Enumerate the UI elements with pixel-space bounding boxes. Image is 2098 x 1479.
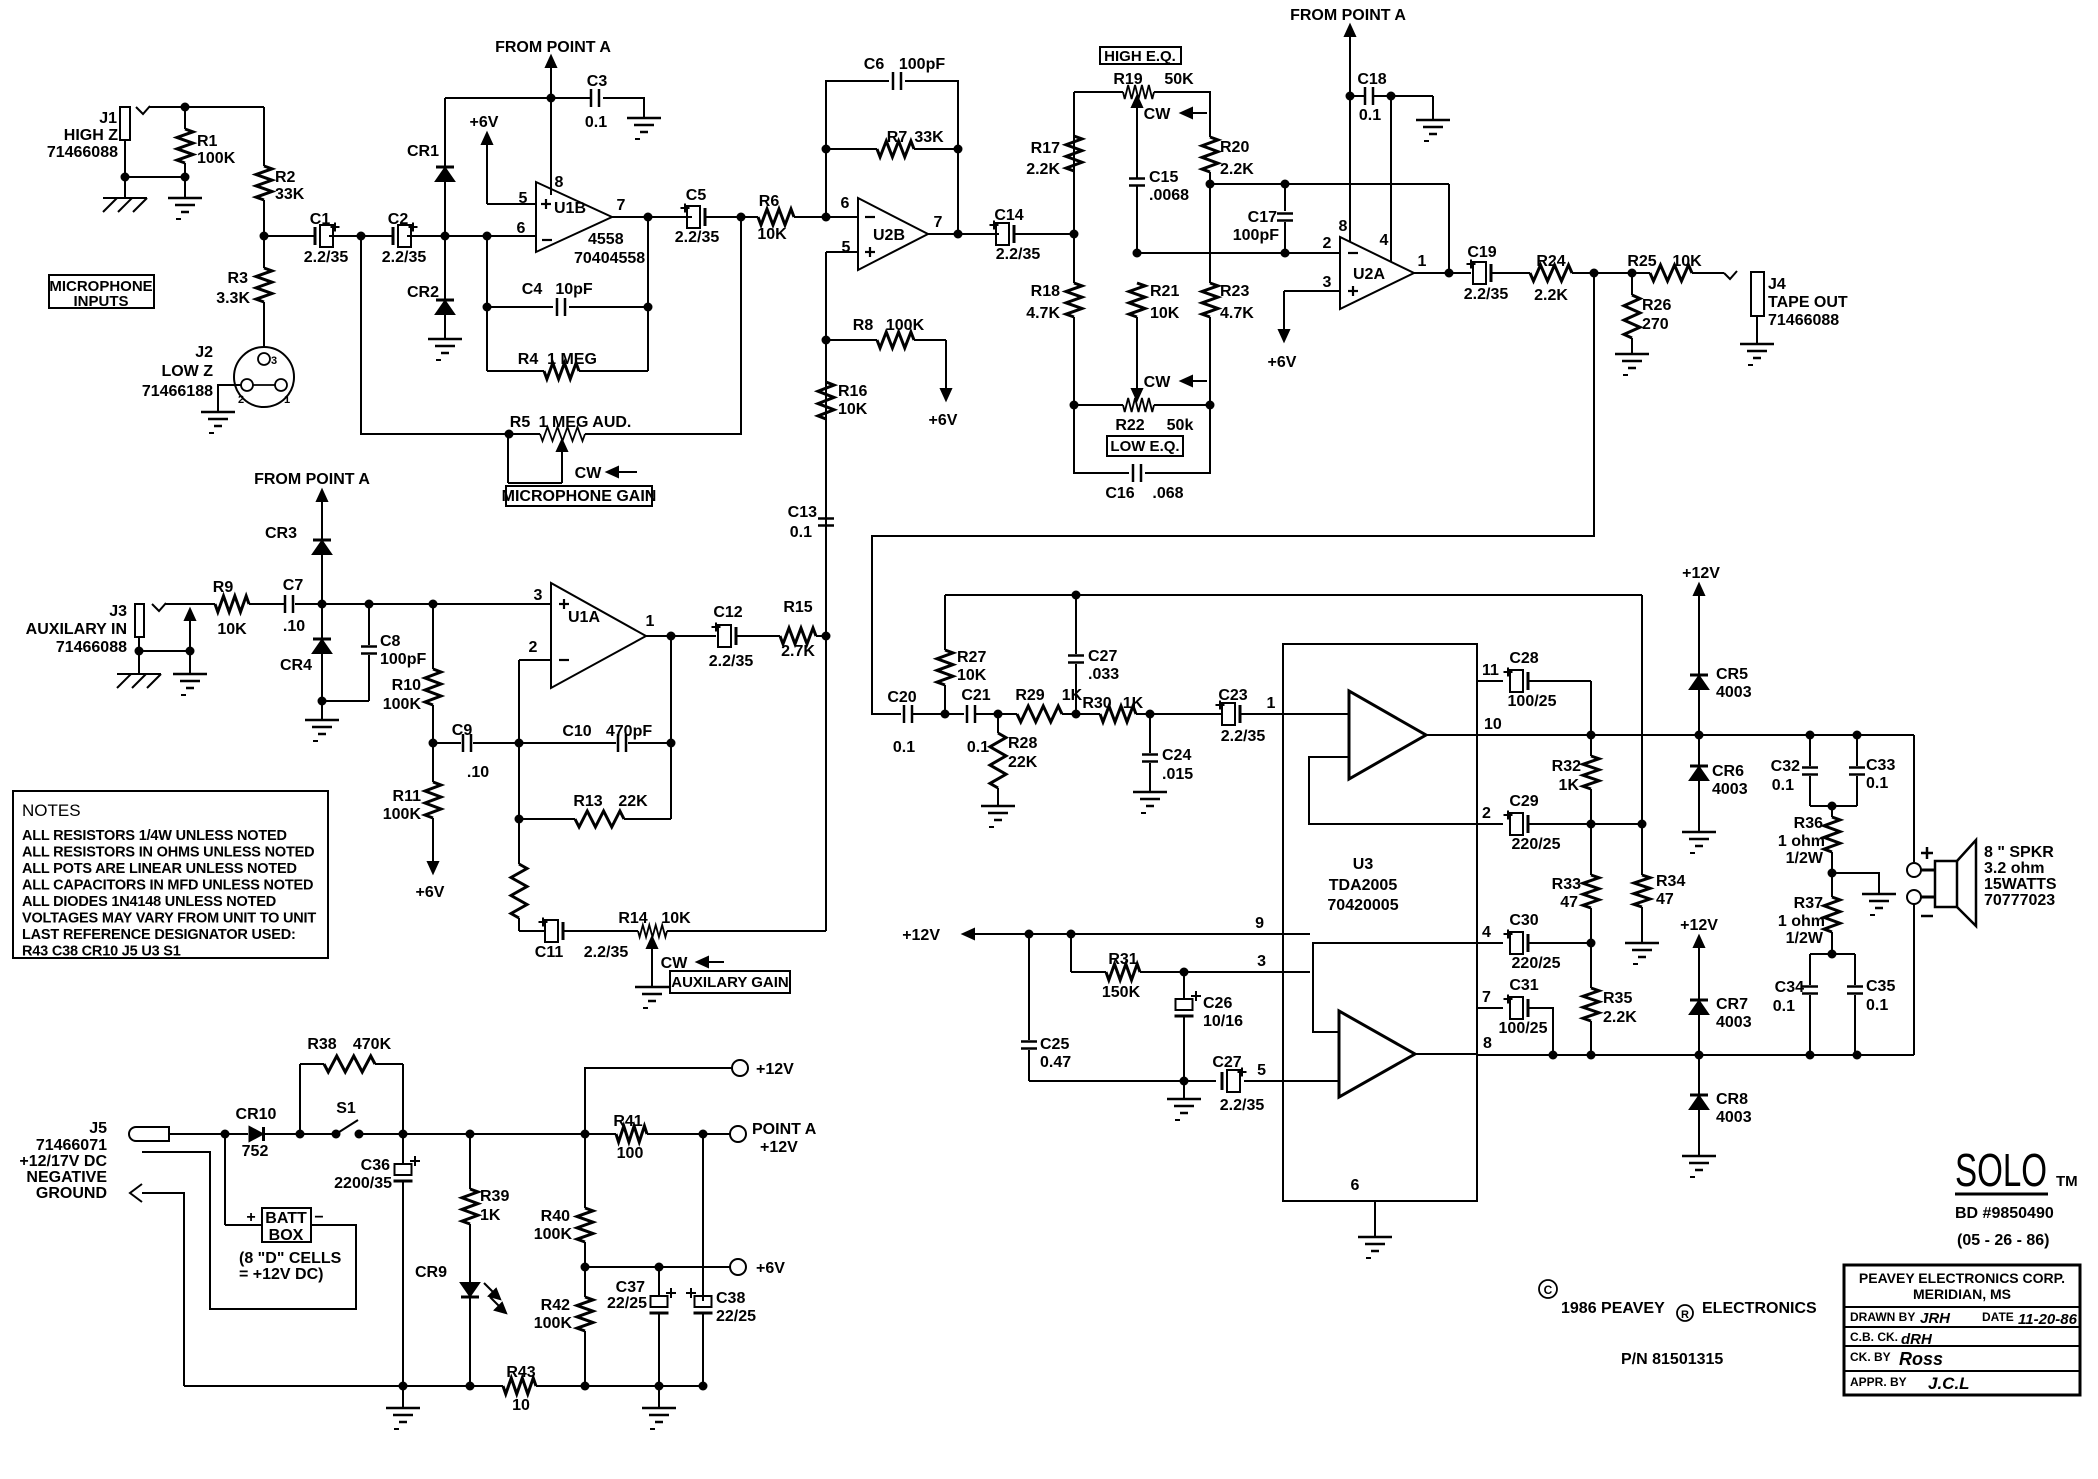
junction xyxy=(318,600,438,609)
svg-text:10: 10 xyxy=(512,1397,530,1414)
node +12V (CR5) xyxy=(1682,565,1720,675)
potentiometer R5 microphone gain xyxy=(508,414,637,483)
junction xyxy=(221,1130,230,1139)
capacitor C33 xyxy=(1832,735,1895,806)
resistor R28 xyxy=(990,714,1038,806)
svg-text:10K: 10K xyxy=(661,910,691,927)
junction xyxy=(1281,249,1290,258)
svg-text:2.2/35: 2.2/35 xyxy=(709,653,754,670)
wire xyxy=(263,200,265,268)
svg-text:22/25: 22/25 xyxy=(716,1308,756,1325)
capacitor C16 xyxy=(1105,464,1183,502)
connector J5 DC power jack xyxy=(19,1120,169,1202)
wire xyxy=(321,604,323,638)
svg-text:U2B: U2B xyxy=(873,227,905,244)
svg-text:R27: R27 xyxy=(957,649,986,666)
wire pin2 stub xyxy=(519,659,551,661)
wire xyxy=(1154,92,1210,137)
svg-text:R24: R24 xyxy=(1536,253,1565,270)
junction xyxy=(399,1130,590,1139)
ground xyxy=(642,1386,676,1429)
svg-text:C9: C9 xyxy=(452,722,473,739)
svg-text:R43: R43 xyxy=(506,1364,535,1381)
wire R20 node row xyxy=(1210,183,1449,185)
svg-text:1: 1 xyxy=(1267,695,1276,712)
op-amp U2B xyxy=(841,195,943,270)
capacitor C18 xyxy=(1350,71,1433,124)
op-amp U1B xyxy=(517,174,646,267)
wire xyxy=(249,603,284,605)
ground xyxy=(1682,832,1716,853)
svg-text:R33: R33 xyxy=(1552,876,1581,893)
svg-text:0.1: 0.1 xyxy=(1866,997,1888,1014)
svg-text:100K: 100K xyxy=(383,806,422,823)
svg-text:R29: R29 xyxy=(1015,687,1044,704)
svg-text:C8: C8 xyxy=(380,633,401,650)
node FROM POINT A (U1B) xyxy=(495,39,611,98)
node +6V U1B pin5 xyxy=(470,114,499,204)
svg-text:R5: R5 xyxy=(510,414,531,431)
resistor R38 xyxy=(300,1036,403,1134)
svg-text:47: 47 xyxy=(1560,894,1578,911)
ground xyxy=(168,177,202,219)
svg-text:3.3K: 3.3K xyxy=(216,290,250,307)
svg-text:5: 5 xyxy=(519,190,528,207)
resistor R6 xyxy=(757,193,794,243)
resistor R34 xyxy=(1634,824,1685,943)
svg-text:2.2/35: 2.2/35 xyxy=(1221,728,1266,745)
svg-text:GROUND: GROUND xyxy=(36,1185,107,1202)
wire U2A feedback xyxy=(1448,184,1450,273)
capacitor C26 xyxy=(1175,972,1244,1081)
wire pin5 xyxy=(826,251,858,253)
wire U2B output xyxy=(928,233,999,235)
junction xyxy=(667,632,676,641)
svg-text:DRAWN BY: DRAWN BY xyxy=(1850,1310,1915,1324)
svg-text:150K: 150K xyxy=(1102,984,1141,1001)
wire xyxy=(1572,272,1650,274)
op-amp U3 upper half xyxy=(1349,691,1426,779)
svg-text:15WATTS: 15WATTS xyxy=(1984,876,2057,893)
capacitor C12 xyxy=(709,604,754,670)
svg-text:TAPE OUT: TAPE OUT xyxy=(1768,294,1848,311)
junction xyxy=(429,739,438,748)
svg-text:.033: .033 xyxy=(1088,666,1119,683)
capacitor C6 xyxy=(864,56,946,90)
wire xyxy=(359,1133,585,1135)
wire xyxy=(1698,735,1700,766)
wire xyxy=(321,555,323,604)
svg-text:0.1: 0.1 xyxy=(893,739,915,756)
capacitor C1 xyxy=(304,211,349,266)
svg-text:S1: S1 xyxy=(336,1100,356,1117)
chassis ground xyxy=(117,651,161,688)
svg-text:MICROPHONE GAIN: MICROPHONE GAIN xyxy=(502,488,657,505)
wire feedback right leg xyxy=(647,217,649,371)
capacitor C19 xyxy=(1464,244,1509,303)
ground xyxy=(173,651,207,695)
svg-text:R7: R7 xyxy=(887,129,908,146)
junction xyxy=(1445,269,1454,278)
wire +6V row xyxy=(585,1266,730,1268)
svg-text:CR7: CR7 xyxy=(1716,996,1748,1013)
svg-text:C26: C26 xyxy=(1203,995,1232,1012)
svg-text:100/25: 100/25 xyxy=(1508,693,1557,710)
ground xyxy=(386,1386,420,1429)
junction xyxy=(515,739,524,748)
svg-text:0.1: 0.1 xyxy=(1359,107,1381,124)
wire xyxy=(264,235,315,237)
svg-text:Ross: Ross xyxy=(1899,1349,1943,1369)
junction xyxy=(1828,869,1837,878)
junction xyxy=(699,1130,708,1139)
junction xyxy=(1180,968,1189,977)
op-amp U2A xyxy=(1323,218,1427,309)
svg-text:AUXILARY GAIN: AUXILARY GAIN xyxy=(671,974,789,991)
wire xyxy=(905,81,958,235)
wire pin8 xyxy=(550,98,552,195)
LED CR9 xyxy=(415,1264,506,1313)
svg-text:1/2W: 1/2W xyxy=(1786,850,1824,867)
wire xyxy=(705,216,758,218)
svg-text:3: 3 xyxy=(534,587,543,604)
svg-text:2.2/35: 2.2/35 xyxy=(675,229,720,246)
svg-text:2: 2 xyxy=(1482,805,1491,822)
junction xyxy=(822,145,963,154)
wire xyxy=(1014,233,1074,235)
node +12V (CR7) xyxy=(1680,917,1718,1000)
wire U2A output xyxy=(1414,272,1471,274)
svg-text:10pF: 10pF xyxy=(555,281,593,298)
svg-text:100: 100 xyxy=(617,1145,644,1162)
svg-text:3.2 ohm: 3.2 ohm xyxy=(1984,860,2044,877)
wire xyxy=(1062,713,1100,715)
resistor R15 xyxy=(780,599,816,660)
svg-text:C36: C36 xyxy=(361,1157,390,1174)
wire center tap xyxy=(1832,873,1879,894)
svg-text:R43 C38 CR10 J5 U3 S1: R43 C38 CR10 J5 U3 S1 xyxy=(22,944,181,960)
wire lower output internal xyxy=(1415,1053,1477,1055)
svg-text:R42: R42 xyxy=(541,1297,570,1314)
svg-text:3: 3 xyxy=(1257,953,1266,970)
svg-text:C28: C28 xyxy=(1509,650,1538,667)
svg-text:J5: J5 xyxy=(89,1120,107,1137)
wire upper output internal xyxy=(1426,734,1477,736)
junction xyxy=(1072,710,1081,719)
svg-text:9: 9 xyxy=(1255,915,1264,932)
svg-text:C35: C35 xyxy=(1866,978,1895,995)
junction xyxy=(515,815,524,824)
svg-text:R13: R13 xyxy=(573,793,602,810)
wire xyxy=(1698,1015,1700,1055)
capacitor C27 (2.2/35) xyxy=(1212,1054,1264,1114)
wire xyxy=(1136,186,1138,253)
svg-text:+12V: +12V xyxy=(902,927,940,944)
svg-text:R4: R4 xyxy=(518,351,539,368)
svg-text:C32: C32 xyxy=(1771,758,1800,775)
svg-text:HIGH Z: HIGH Z xyxy=(64,127,118,144)
capacitor C25 xyxy=(1021,934,1216,1081)
svg-text:C11: C11 xyxy=(535,944,564,961)
svg-text:4: 4 xyxy=(1482,924,1491,941)
capacitor C15 xyxy=(1129,169,1189,204)
svg-text:C21: C21 xyxy=(961,687,990,704)
capacitor C11 xyxy=(535,918,629,962)
junction xyxy=(667,739,676,748)
svg-text:R11: R11 xyxy=(393,788,422,805)
svg-text:2.2/35: 2.2/35 xyxy=(304,249,349,266)
resistor R30 xyxy=(1082,695,1143,722)
svg-text:U2A: U2A xyxy=(1353,266,1385,283)
svg-text:C18: C18 xyxy=(1357,71,1386,88)
svg-text:220/25: 220/25 xyxy=(1512,955,1561,972)
wire speaker minus xyxy=(1913,904,1915,1055)
wire xyxy=(361,236,540,434)
wire pin1 xyxy=(1240,695,1283,714)
svg-text:2200/35: 2200/35 xyxy=(334,1175,392,1192)
svg-text:(05 - 26 - 86): (05 - 26 - 86) xyxy=(1957,1232,2049,1249)
svg-text:.10: .10 xyxy=(283,618,305,635)
junction xyxy=(954,230,963,239)
label MICROPHONE INPUTS box xyxy=(49,275,154,310)
svg-text:2: 2 xyxy=(529,639,538,656)
capacitor C37 xyxy=(607,1267,676,1386)
svg-text:71466071: 71466071 xyxy=(36,1137,107,1154)
svg-text:22/25: 22/25 xyxy=(607,1295,647,1312)
svg-text:10K: 10K xyxy=(217,621,247,638)
junction xyxy=(1587,820,1647,829)
svg-text:dRH: dRH xyxy=(1901,1331,1933,1348)
diode CR7 xyxy=(1690,996,1752,1031)
svg-text:R41: R41 xyxy=(613,1113,642,1130)
ground xyxy=(428,339,462,360)
svg-text:1 ohm: 1 ohm xyxy=(1778,913,1825,930)
svg-text:R10: R10 xyxy=(392,677,421,694)
wire xyxy=(1590,681,1592,735)
terminal +12V xyxy=(732,1060,794,1078)
resistor R24 xyxy=(1530,253,1572,304)
svg-text:R3: R3 xyxy=(228,270,249,287)
svg-text:2.2K: 2.2K xyxy=(1603,1009,1637,1026)
svg-text:100K: 100K xyxy=(197,150,236,167)
svg-text:R15: R15 xyxy=(783,599,812,616)
svg-text:C17: C17 xyxy=(1248,209,1277,226)
svg-text:10K: 10K xyxy=(1150,305,1180,322)
svg-text:J3: J3 xyxy=(109,603,127,620)
svg-text:R6: R6 xyxy=(759,193,780,210)
capacitor C14 xyxy=(990,207,1041,263)
resistor R10 xyxy=(383,604,441,743)
svg-text:2.2/35: 2.2/35 xyxy=(996,246,1041,263)
svg-text:2.2/35: 2.2/35 xyxy=(1220,1097,1265,1114)
svg-text:−: − xyxy=(314,1209,323,1226)
svg-text:CW: CW xyxy=(1144,106,1172,123)
wire xyxy=(1432,96,1434,120)
wire xyxy=(975,713,998,715)
capacitor C7 xyxy=(283,577,305,635)
junction xyxy=(1587,731,1862,740)
svg-text:C1: C1 xyxy=(310,211,331,228)
node FROM POINT A (U2A) xyxy=(1290,7,1406,96)
svg-text:70404558: 70404558 xyxy=(574,250,645,267)
wire xyxy=(816,635,826,637)
svg-text:C33: C33 xyxy=(1866,757,1895,774)
junction xyxy=(1133,249,1142,258)
svg-text:10K: 10K xyxy=(1672,253,1702,270)
wire xyxy=(321,654,323,701)
svg-text:.10: .10 xyxy=(467,764,489,781)
svg-text:+12V: +12V xyxy=(1682,565,1720,582)
resistor R25 xyxy=(1627,253,1702,281)
capacitor C23 xyxy=(1216,687,1266,745)
svg-text:J2: J2 xyxy=(195,344,213,361)
junction xyxy=(1828,802,1837,811)
svg-text:C6: C6 xyxy=(864,56,885,73)
svg-text:BOX: BOX xyxy=(269,1227,304,1244)
svg-text:ALL RESISTORS IN OHMS UNLESS N: ALL RESISTORS IN OHMS UNLESS NOTED xyxy=(22,845,314,861)
diode CR10 xyxy=(225,1106,300,1160)
capacitor C32 xyxy=(1771,735,1832,806)
wire pin5 xyxy=(1244,1062,1283,1081)
svg-text:C12: C12 xyxy=(713,604,742,621)
wire xyxy=(263,302,265,347)
svg-text:AUXILARY IN: AUXILARY IN xyxy=(26,621,127,638)
svg-text:CR8: CR8 xyxy=(1716,1091,1748,1108)
svg-text:270: 270 xyxy=(1642,316,1669,333)
svg-text:NEGATIVE: NEGATIVE xyxy=(26,1169,107,1186)
svg-text:6: 6 xyxy=(1351,1177,1360,1194)
wire xyxy=(165,603,215,605)
svg-text:.0068: .0068 xyxy=(1149,187,1189,204)
svg-text:0.47: 0.47 xyxy=(1040,1054,1071,1071)
wire xyxy=(1136,713,1222,715)
svg-text:C25: C25 xyxy=(1040,1036,1069,1053)
svg-text:C10: C10 xyxy=(562,723,591,740)
wire feedback left leg xyxy=(486,236,488,371)
svg-text:2.2K: 2.2K xyxy=(1534,287,1568,304)
svg-text:6: 6 xyxy=(841,195,850,212)
svg-text:+12V: +12V xyxy=(756,1061,794,1078)
svg-text:1 MEG: 1 MEG xyxy=(547,351,597,368)
svg-text:+12/17V DC: +12/17V DC xyxy=(19,1153,107,1170)
wire pin8 (U2A) xyxy=(1349,96,1351,242)
junction xyxy=(737,213,746,222)
svg-text:7: 7 xyxy=(1482,989,1491,1006)
svg-text:C: C xyxy=(1544,1283,1553,1297)
capacitor C38 xyxy=(686,1288,756,1325)
svg-text:47: 47 xyxy=(1656,891,1674,908)
wire xyxy=(139,637,190,651)
connector J3 AUXILARY IN jack xyxy=(26,603,166,656)
wire xyxy=(1136,317,1138,394)
ground xyxy=(627,118,661,139)
svg-text:= +12V DC): = +12V DC) xyxy=(239,1266,323,1283)
resistor R41 xyxy=(585,1113,730,1162)
ground xyxy=(1740,344,1774,365)
diode CR1 xyxy=(407,143,454,181)
capacitor C8 xyxy=(322,604,426,701)
svg-text:0.1: 0.1 xyxy=(1866,775,1888,792)
svg-text:C29: C29 xyxy=(1509,793,1538,810)
op-amp U3 lower half xyxy=(1339,1011,1415,1097)
svg-text:50K: 50K xyxy=(1164,71,1194,88)
svg-text:C14: C14 xyxy=(994,207,1023,224)
resistor R20 xyxy=(1202,137,1254,178)
wire xyxy=(125,140,185,177)
label HIGH E.Q. box xyxy=(1100,47,1181,65)
wire pin5 internal xyxy=(1283,1080,1339,1082)
svg-text:ALL RESISTORS 1/4W UNLESS NOTE: ALL RESISTORS 1/4W UNLESS NOTED xyxy=(22,828,287,844)
svg-text:BD #9850490: BD #9850490 xyxy=(1955,1205,2054,1222)
svg-text:R32: R32 xyxy=(1552,758,1581,775)
svg-text:C27: C27 xyxy=(1088,648,1117,665)
wire xyxy=(444,315,446,339)
junction xyxy=(483,303,653,312)
junction xyxy=(644,213,653,222)
svg-text:5: 5 xyxy=(1257,1062,1266,1079)
wire pin6 ground xyxy=(1351,1177,1375,1237)
svg-text:6: 6 xyxy=(517,220,526,237)
junction xyxy=(1206,180,1290,189)
svg-text:CR10: CR10 xyxy=(236,1106,277,1123)
svg-text:100K: 100K xyxy=(534,1315,573,1332)
ground xyxy=(305,701,339,741)
capacitor C5 xyxy=(675,187,720,246)
junction xyxy=(441,232,492,241)
svg-text:HIGH E.Q.: HIGH E.Q. xyxy=(1104,48,1176,65)
svg-text:R1: R1 xyxy=(197,133,218,150)
svg-text:LAST REFERENCE DESIGNATOR USED: LAST REFERENCE DESIGNATOR USED: xyxy=(22,927,296,943)
wire xyxy=(1591,823,1642,825)
diode CR4 xyxy=(280,639,331,674)
ground xyxy=(635,987,669,1008)
wire xyxy=(218,385,241,412)
wire xyxy=(1528,1008,1553,1055)
ground xyxy=(201,412,235,433)
svg-text:C.B. CK.: C.B. CK. xyxy=(1850,1330,1898,1344)
switch S1 xyxy=(300,1100,364,1139)
resistor R27 xyxy=(937,595,987,714)
wire xyxy=(1074,404,1123,406)
svg-text:NOTES: NOTES xyxy=(22,801,81,820)
ground xyxy=(1615,354,1649,375)
svg-text:2.2/35: 2.2/35 xyxy=(382,249,427,266)
svg-text:8: 8 xyxy=(555,174,564,191)
svg-text:R37: R37 xyxy=(1794,895,1823,912)
svg-text:1K: 1K xyxy=(480,1207,501,1224)
connector J2 LOW Z XLR input xyxy=(142,344,294,407)
svg-text:R2: R2 xyxy=(275,169,296,186)
junction xyxy=(1070,230,1079,239)
junction xyxy=(1587,939,1596,948)
junction xyxy=(121,103,190,182)
svg-text:U3: U3 xyxy=(1353,856,1374,873)
wire xyxy=(563,930,638,932)
svg-text:4.7K: 4.7K xyxy=(1026,305,1060,322)
svg-text:4003: 4003 xyxy=(1716,1014,1752,1031)
chassis ground xyxy=(103,177,147,212)
svg-text:3: 3 xyxy=(1323,274,1332,291)
svg-text:R20: R20 xyxy=(1220,139,1249,156)
wire mix bus xyxy=(825,252,827,931)
resistor R3 xyxy=(216,268,272,307)
speaker 8in 3.2 ohm xyxy=(1907,840,2057,926)
potentiometer R14 auxilary gain xyxy=(618,910,724,987)
svg-text:ALL DIODES 1N4148 UNLESS NOTED: ALL DIODES 1N4148 UNLESS NOTED xyxy=(22,894,276,910)
node +12V (pin 9) xyxy=(902,915,1283,944)
svg-text:0.1: 0.1 xyxy=(1773,998,1795,1015)
resistor R37 xyxy=(1778,873,1840,954)
